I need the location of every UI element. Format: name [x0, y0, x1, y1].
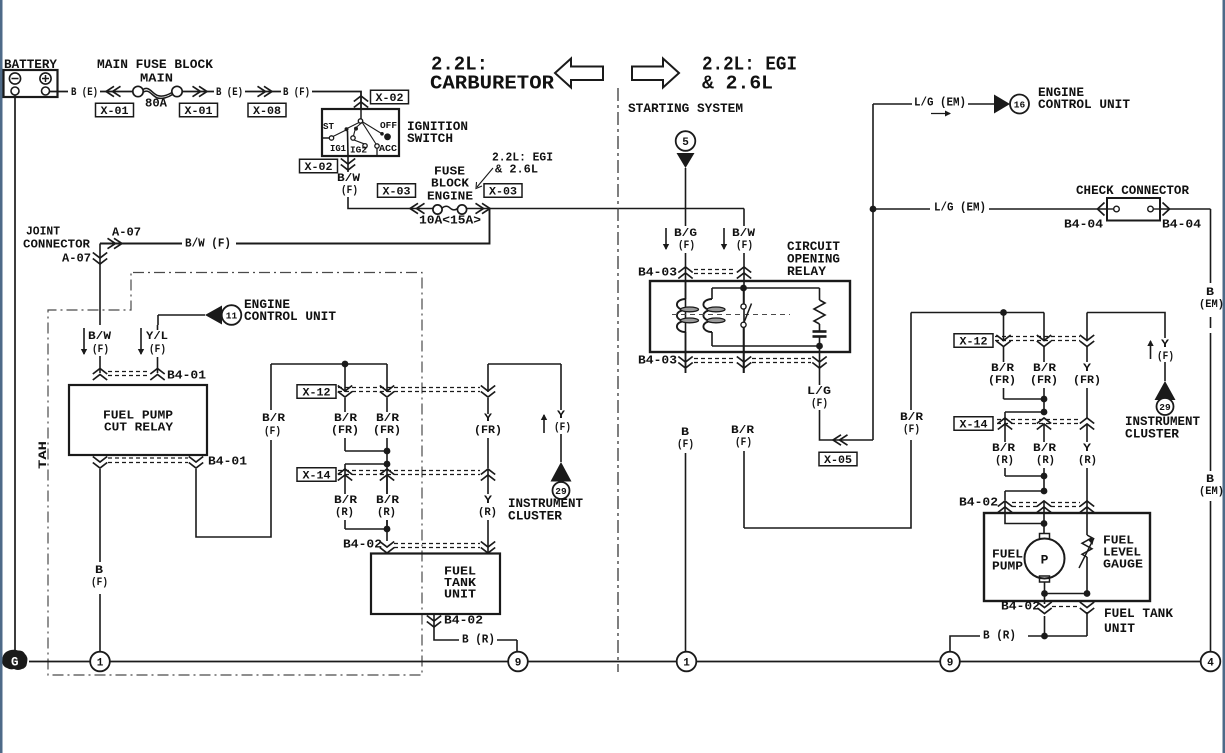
wire label B/G (F) arrow: [665, 228, 667, 249]
svg-text:FUEL TANK: FUEL TANK: [1104, 607, 1174, 621]
wire label Y (F) right with arrow: [1150, 341, 1152, 359]
svg-text:(F): (F): [903, 424, 920, 436]
connector box X-14 right: [954, 417, 993, 432]
svg-text:B4-04: B4-04: [1162, 218, 1201, 232]
wire labels B/R (FR) right: [988, 362, 1018, 388]
svg-text:X-08: X-08: [253, 106, 281, 118]
svg-text:Y: Y: [1083, 363, 1091, 375]
connector X-12 right chevrons: [995, 335, 1094, 347]
wire split right to X-14: [1005, 411, 1044, 413]
connector X-14 right chevrons: [997, 418, 1094, 430]
wire label Y/L (F) arrow: [140, 328, 142, 354]
connector chevron A-07 vertical: [93, 253, 107, 265]
wire battery positive to fuse: [50, 91, 69, 93]
svg-text:80A: 80A: [145, 97, 167, 110]
svg-text:29: 29: [555, 486, 567, 497]
connector B4-01 bottom row: [93, 455, 247, 469]
arrow left carburetor: [555, 59, 603, 88]
svg-text:X-14: X-14: [303, 471, 331, 483]
note 2.2L EGI and 2.6L: [476, 151, 553, 188]
svg-text:B: B: [95, 565, 103, 577]
svg-text:B/R: B/R: [992, 443, 1015, 455]
wire column B/R FR 2: [386, 364, 388, 392]
wire merge right above B4-02: [1005, 475, 1044, 477]
svg-text:11: 11: [226, 310, 238, 321]
fuel level gauge R1: [1082, 501, 1092, 594]
svg-text:BLOCK: BLOCK: [431, 177, 470, 191]
wire merge above fuel tank: [345, 528, 387, 530]
relay inner bottom wire: [712, 345, 820, 347]
svg-text:CUT RELAY: CUT RELAY: [104, 421, 174, 435]
svg-text:(FR): (FR): [1073, 375, 1101, 387]
svg-text:CARBURETOR: CARBURETOR: [430, 73, 555, 95]
svg-text:(F): (F): [341, 185, 358, 197]
wire joint connector line left: [100, 243, 182, 245]
svg-text:(F): (F): [677, 439, 694, 451]
connector chevron X-08: [258, 86, 273, 96]
svg-text:X-12: X-12: [960, 337, 988, 349]
circuit opening relay K2 box: [650, 281, 850, 352]
svg-text:(F): (F): [92, 344, 109, 356]
connector chevron A-07 horizontal: [108, 238, 123, 248]
svg-text:X-05: X-05: [824, 455, 852, 467]
svg-text:L/G: L/G: [807, 386, 831, 398]
svg-text:X-02: X-02: [305, 162, 333, 174]
connector box X-01 b: [180, 103, 218, 118]
svg-text:(R): (R): [995, 455, 1014, 467]
wire B/R to fuel pump feed: [743, 451, 745, 528]
wire merge right pair: [1004, 398, 1045, 400]
svg-text:B4-02: B4-02: [444, 614, 483, 628]
wire split right above tank: [1005, 490, 1044, 492]
fuel pump M1: [1025, 534, 1065, 594]
connector box X-14 left: [297, 468, 336, 483]
svg-text:IG2: IG2: [350, 144, 367, 155]
svg-text:4: 4: [1207, 658, 1214, 670]
wire to connector X-08: [245, 91, 281, 93]
svg-text:B/R: B/R: [731, 425, 754, 437]
svg-text:(F): (F): [678, 240, 695, 252]
connector box X-03 left: [378, 184, 416, 199]
wire pump down to B R line: [1044, 616, 1046, 636]
fuel tank unit box left: [371, 554, 500, 615]
ground node 1 center: [677, 652, 697, 672]
svg-text:(F): (F): [1157, 351, 1174, 363]
svg-text:Y: Y: [557, 410, 565, 422]
wire labels B/R (FR) left: [330, 412, 360, 438]
connector B4-02 below left tank: [427, 616, 441, 628]
svg-text:B/R: B/R: [334, 413, 357, 425]
wire column B/R FR 1: [344, 364, 346, 392]
wire right top bus: [911, 312, 1044, 314]
wire right column 1: [1003, 313, 1005, 341]
relay coil 1: [685, 281, 687, 299]
connector B4-02 bottom right row: [1001, 600, 1094, 614]
connector X-14 row chevrons: [338, 469, 495, 481]
svg-text:X-14: X-14: [960, 420, 988, 432]
wire right columns below X-14: [1004, 424, 1006, 476]
svg-text:B/G: B/G: [674, 228, 697, 240]
svg-text:(R): (R): [478, 507, 497, 519]
main ground wire: [29, 661, 1201, 663]
wire top bus to X-12 columns: [271, 363, 387, 365]
svg-text:(F): (F): [735, 437, 752, 449]
ground node 9 left: [508, 652, 528, 672]
svg-text:B/R: B/R: [900, 412, 923, 424]
svg-text:B4-03: B4-03: [638, 266, 677, 280]
ignition switch S1: [322, 109, 399, 156]
svg-text:STARTING SYSTEM: STARTING SYSTEM: [628, 101, 743, 116]
svg-text:L/G (EM): L/G (EM): [914, 96, 966, 109]
connector X-12 row chevrons: [338, 386, 495, 398]
wire to connector X-01: [100, 91, 132, 93]
ground symbol G: [2, 650, 27, 670]
svg-text:CONTROL UNIT: CONTROL UNIT: [244, 310, 337, 324]
svg-text:9: 9: [947, 658, 954, 670]
instrument cluster 29 right: [1125, 362, 1200, 442]
relay coil 2: [711, 288, 713, 299]
wire B EM riser top: [1210, 209, 1212, 283]
wire label B/W (F) arrow right: [723, 228, 725, 249]
wire B/W branch down to relay: [743, 209, 745, 227]
wire from starting system down: [685, 168, 687, 226]
svg-text:9: 9: [515, 658, 522, 670]
svg-text:(EM): (EM): [1199, 486, 1224, 498]
wire Y top bus left: [488, 363, 561, 365]
svg-text:B/R: B/R: [334, 495, 357, 507]
svg-text:(F): (F): [554, 422, 571, 434]
connector B4-02 left row: [343, 538, 495, 553]
wire branch down to joint connector line: [236, 209, 490, 244]
svg-text:B/R: B/R: [1033, 363, 1056, 375]
wire labels B/R (R) left: [330, 494, 360, 520]
svg-text:B/R: B/R: [376, 413, 399, 425]
connector box X-12 right: [954, 334, 993, 349]
svg-text:(R): (R): [335, 507, 354, 519]
relay inner top wire: [712, 287, 820, 289]
connector box X-05: [819, 452, 857, 467]
fuel level gauge arrow: [1079, 538, 1094, 568]
section separator dash-dot line: [617, 88, 619, 672]
svg-text:B/W (F): B/W (F): [185, 237, 231, 250]
connector chevron X-01 left: [106, 86, 121, 96]
svg-text:B: B: [681, 427, 689, 439]
svg-text:(EM): (EM): [1199, 299, 1224, 311]
svg-text:X-03: X-03: [489, 187, 517, 199]
svg-text:B4-02: B4-02: [959, 496, 998, 510]
svg-text:B4-02: B4-02: [343, 538, 382, 552]
wire fuse output to B/W branch: [466, 208, 744, 210]
relay resistor: [819, 288, 821, 300]
svg-text:X-01: X-01: [185, 106, 213, 118]
svg-text:5: 5: [682, 137, 689, 149]
svg-text:(F): (F): [91, 577, 108, 589]
svg-text:(F): (F): [149, 344, 166, 356]
connector box X-01 a: [96, 103, 134, 118]
arrow right EGI: [632, 59, 679, 88]
wire Y/L into relay: [157, 325, 159, 330]
wire label B/R (F) riser: [258, 410, 286, 440]
wire B (R) left to ground node 9: [434, 614, 459, 640]
svg-text:TAH: TAH: [38, 441, 50, 469]
wire check connector to B EM riser: [1160, 208, 1211, 210]
connector B4-02 right row: [959, 496, 1094, 513]
fuse MAIN 80A: [133, 72, 182, 110]
svg-text:B/W: B/W: [88, 331, 111, 343]
relay switch: [741, 288, 752, 373]
svg-text:(FR): (FR): [474, 425, 502, 437]
instrument cluster 29 left: [508, 434, 583, 524]
connector chevron X-02 top: [354, 96, 368, 108]
svg-text:IG1: IG1: [330, 143, 346, 154]
connector chevron X-02 bottom: [347, 156, 349, 172]
svg-text:Y/L: Y/L: [146, 331, 168, 343]
starting system source 5: [676, 131, 696, 168]
svg-text:Y: Y: [1083, 443, 1091, 455]
svg-text:X-02: X-02: [376, 93, 404, 105]
fuel pump cut relay K1: [69, 385, 207, 455]
svg-text:B: B: [1206, 287, 1214, 299]
svg-text:CHECK CONNECTOR: CHECK CONNECTOR: [1076, 184, 1189, 198]
connector chevron X-03 right: [476, 203, 491, 213]
connector box X-02 top: [371, 90, 409, 105]
svg-text:& 2.6L: & 2.6L: [495, 163, 538, 176]
ground node 9 right: [940, 652, 960, 672]
wire Y column left: [487, 398, 489, 414]
wire L/G EM riser: [872, 104, 874, 440]
wire Y/L from ECU down: [157, 315, 159, 325]
svg-text:UNIT: UNIT: [1104, 622, 1136, 636]
wire joint connector down: [99, 244, 101, 326]
svg-text:Y: Y: [1161, 339, 1169, 351]
svg-text:10A<15A>: 10A<15A>: [419, 214, 481, 227]
connector box X-02 bottom: [300, 159, 338, 174]
wire ignition to fuse block: [348, 197, 433, 209]
relay linkage dashed: [672, 314, 790, 316]
svg-text:(F): (F): [264, 426, 281, 438]
connector chevron X-01 right: [193, 86, 208, 96]
svg-text:1: 1: [683, 658, 690, 670]
fuel tank unit box right: [984, 513, 1150, 601]
svg-text:X-03: X-03: [383, 187, 411, 199]
wire battery negative to ground G: [14, 95, 16, 651]
svg-text:B4-01: B4-01: [208, 455, 247, 469]
svg-text:B (R): B (R): [462, 633, 495, 646]
ground node 1 left: [90, 652, 110, 672]
wire B (R) right: [950, 636, 980, 651]
svg-text:UNIT: UNIT: [444, 588, 476, 601]
svg-text:CLUSTER: CLUSTER: [1125, 428, 1180, 442]
ground node 4: [1201, 652, 1221, 672]
svg-text:PUMP: PUMP: [992, 560, 1023, 573]
wire L/G EM to check connector: [873, 208, 930, 210]
svg-text:(R): (R): [377, 507, 396, 519]
svg-text:B/R: B/R: [376, 495, 399, 507]
svg-text:MAIN FUSE BLOCK: MAIN FUSE BLOCK: [97, 58, 214, 72]
wire L/G to X-05: [820, 410, 874, 440]
wire B/G below label to relay: [685, 253, 687, 373]
svg-text:1: 1: [97, 658, 104, 670]
svg-text:JOINT: JOINT: [26, 225, 60, 239]
svg-text:& 2.6L: & 2.6L: [702, 73, 773, 95]
svg-text:OFF: OFF: [380, 120, 397, 131]
svg-text:CONTROL UNIT: CONTROL UNIT: [1038, 98, 1131, 112]
svg-text:B (F): B (F): [283, 87, 310, 99]
wire Y top bus right: [1087, 313, 1165, 339]
svg-text:B/W: B/W: [732, 228, 755, 240]
wire B/R relay output to riser: [196, 364, 271, 537]
wire B (F) to ground node 1: [685, 453, 687, 651]
connector B4-01 top row: [93, 369, 206, 383]
svg-text:Y: Y: [484, 495, 492, 507]
svg-text:L/G (EM): L/G (EM): [934, 201, 986, 214]
relay capacitor: [813, 324, 827, 349]
svg-text:B (E): B (E): [216, 87, 243, 99]
connector B4-03 bottom row: [638, 354, 827, 368]
svg-text:GAUGE: GAUGE: [1103, 558, 1143, 571]
svg-text:(F): (F): [811, 398, 828, 410]
wire label Y (F) left with arrow: [543, 415, 545, 433]
svg-text:ST: ST: [323, 121, 334, 132]
wire B EM bottom to node 4: [1210, 501, 1212, 652]
svg-text:(FR): (FR): [988, 375, 1016, 387]
wire feed into pump: [1004, 501, 1006, 513]
battery B1: [4, 70, 58, 97]
svg-text:RELAY: RELAY: [787, 265, 827, 279]
svg-text:X-12: X-12: [303, 388, 331, 400]
svg-text:B4-04: B4-04: [1064, 218, 1103, 232]
svg-text:A-07: A-07: [112, 226, 141, 239]
svg-text:29: 29: [1159, 402, 1171, 413]
svg-text:(FR): (FR): [373, 425, 401, 437]
engine control unit 11: [158, 298, 337, 325]
wire merge B/R FR columns: [345, 450, 387, 452]
svg-text:B4-01: B4-01: [167, 369, 206, 383]
wire B/W into relay: [99, 356, 101, 373]
svg-text:ENGINE: ENGINE: [427, 190, 473, 204]
HAT region boundary dash-dot: [48, 273, 422, 676]
svg-text:SWITCH: SWITCH: [407, 132, 453, 146]
right page border: [1223, 0, 1225, 753]
wire split to X-14: [345, 463, 387, 465]
svg-text:B (E): B (E): [71, 87, 98, 99]
check connector CN: [1098, 198, 1170, 221]
svg-text:16: 16: [1014, 99, 1026, 110]
svg-text:P: P: [1041, 553, 1049, 568]
connector chevron X-03 left: [410, 203, 425, 213]
svg-text:(FR): (FR): [1030, 375, 1058, 387]
connector box X-12 left: [297, 385, 336, 400]
svg-text:ACC: ACC: [379, 143, 397, 154]
svg-text:(R): (R): [1078, 455, 1097, 467]
connector box X-08: [248, 103, 286, 118]
svg-text:(FR): (FR): [331, 425, 359, 437]
left page border: [0, 0, 3, 753]
connector chevron X-05: [833, 435, 848, 445]
svg-text:A-07: A-07: [62, 252, 91, 265]
wire to engine control unit 16: [873, 86, 1131, 117]
wire gauge down to B R line: [1086, 612, 1088, 636]
svg-text:MAIN: MAIN: [140, 72, 173, 85]
wire pump gauge join: [1045, 593, 1088, 595]
svg-text:CONNECTOR: CONNECTOR: [23, 238, 91, 252]
svg-text:(R): (R): [1036, 455, 1055, 467]
wire B (F) to ignition switch: [312, 92, 361, 110]
svg-text:B4-03: B4-03: [638, 354, 677, 368]
wire Y FR column right: [1086, 313, 1088, 341]
svg-text:B: B: [1206, 474, 1214, 486]
fuse ENGINE 10A: [419, 205, 481, 227]
svg-text:B/R: B/R: [262, 413, 285, 425]
connector box X-03 right: [484, 184, 522, 199]
svg-text:Y: Y: [484, 413, 492, 425]
svg-text:X-01: X-01: [101, 106, 129, 118]
svg-text:CLUSTER: CLUSTER: [508, 510, 563, 524]
wire B EM middle: [1210, 333, 1212, 471]
wire label B/W (F) arrow: [83, 328, 85, 354]
svg-text:B/R: B/R: [991, 363, 1014, 375]
wire L/G relay output: [819, 346, 821, 385]
wire right column 2: [1043, 347, 1045, 412]
wire B (F) relay to ground node: [99, 469, 101, 562]
svg-text:B/W: B/W: [337, 173, 360, 185]
wire fuse to B (E): [182, 91, 214, 93]
svg-text:B (R): B (R): [983, 629, 1016, 642]
svg-text:(F): (F): [736, 240, 753, 252]
connector B4-03 top row: [638, 266, 751, 280]
wire labels B/R (R) right: [990, 442, 1018, 468]
wire columns below X-14: [344, 475, 346, 529]
svg-text:B4-02: B4-02: [1001, 600, 1040, 614]
svg-text:G: G: [11, 656, 19, 670]
svg-text:B/R: B/R: [1033, 443, 1056, 455]
wire B EM dash: [1210, 317, 1212, 328]
